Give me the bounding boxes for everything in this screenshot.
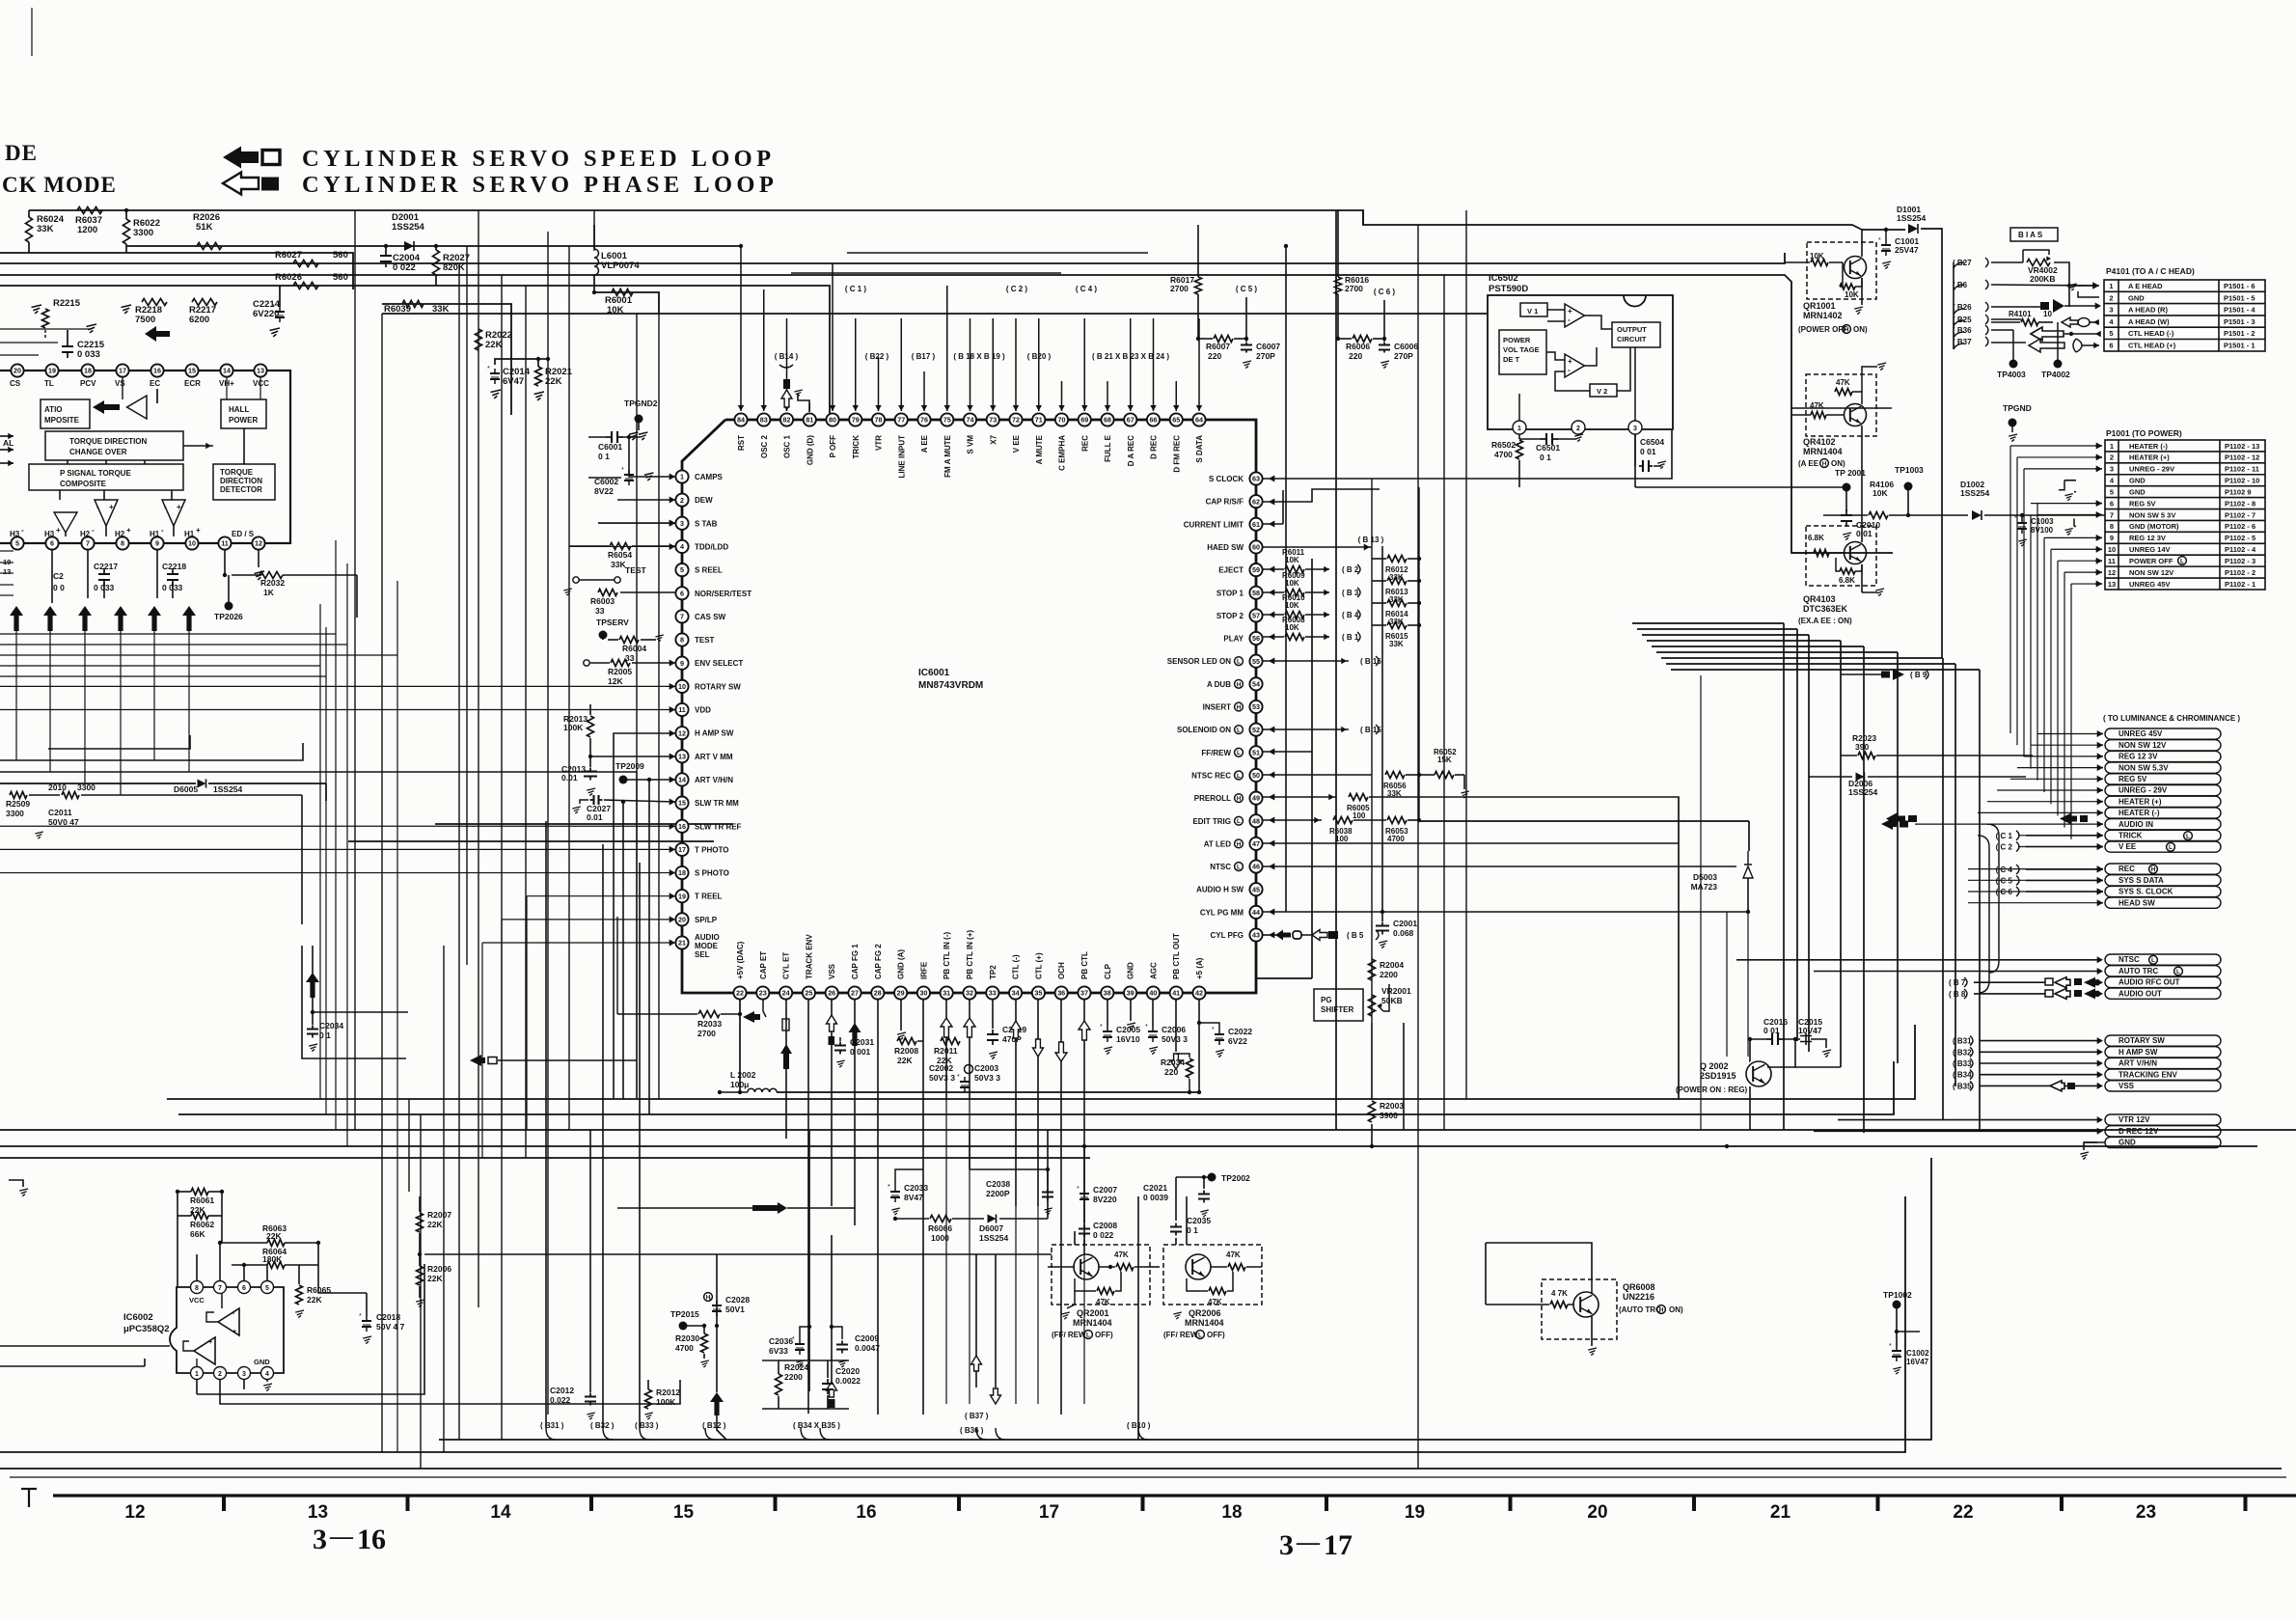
svg-text:AUTO TRC: AUTO TRC: [2118, 967, 2158, 975]
wire vertical 1422 right: [1371, 479, 1373, 1023]
wire IC6002 bottom bus: [197, 1264, 680, 1404]
svg-text:3: 3: [242, 1371, 246, 1378]
svg-text:77: 77: [897, 416, 905, 425]
IC pin 46 NTSC: [1210, 860, 1262, 872]
legend title CYLINDER SERVO SPEED LOOP: [302, 146, 776, 172]
wire pin37 drop: [1079, 1000, 1090, 1254]
resistor R6012: [1372, 556, 1421, 583]
resistor R6007: [1196, 336, 1248, 362]
svg-text:POWER: POWER: [1503, 336, 1531, 344]
wire left band vertical: [346, 563, 348, 1146]
wire under arrow: [49, 629, 51, 772]
pin labels H2- H2+: [80, 526, 131, 538]
capacitor C2002: [929, 1063, 970, 1092]
wire Q2002 base: [1725, 1144, 1729, 1148]
wire pin11 long run: [0, 706, 675, 713]
IC pin 3 S TAB: [675, 517, 717, 530]
svg-text:PB CTL IN (-): PB CTL IN (-): [943, 931, 951, 979]
svg-text:14: 14: [490, 1502, 511, 1523]
svg-text:1SS254: 1SS254: [392, 222, 425, 233]
wire P1001 row: [2010, 443, 2102, 450]
wire sys rows sweep: [0, 0, 1, 1]
svg-text:—: —: [1296, 1530, 1321, 1555]
wire pin49 PREROLL: [1263, 794, 1336, 801]
wire C6 drop: [1383, 300, 1385, 339]
connector C 2: [1996, 842, 2103, 852]
wire left stub: [0, 354, 39, 356]
wire pin50 NTSCREC: [1263, 772, 1372, 779]
svg-text:NON SW 5.3V: NON SW 5.3V: [2118, 763, 2169, 772]
svg-text:P1102 - 8: P1102 - 8: [2225, 499, 2255, 508]
svg-text:H1: H1: [184, 530, 195, 538]
capacitor C2214: [253, 286, 285, 337]
svg-text:C6007: C6007: [1256, 342, 1280, 351]
left IC pin 11: [218, 536, 231, 549]
wire P1001 row: [2058, 558, 2102, 564]
svg-text:5: 5: [2109, 329, 2113, 338]
svg-text:SYS S. CLOCK: SYS S. CLOCK: [2118, 888, 2173, 896]
svg-text:QR4102: QR4102: [1803, 437, 1836, 447]
svg-text:MA723: MA723: [1691, 882, 1718, 892]
svg-text:μPC358Q2: μPC358Q2: [123, 1324, 170, 1334]
svg-text:33K: 33K: [432, 304, 450, 315]
wire B6 row: [1991, 282, 2099, 289]
svg-text:180K: 180K: [262, 1254, 283, 1264]
svg-text:AUDIO RFC OUT: AUDIO RFC OUT: [2118, 978, 2180, 987]
wire top bus: [29, 210, 1862, 230]
svg-text:70: 70: [1058, 416, 1066, 425]
svg-text:220: 220: [1208, 351, 1221, 361]
op-amp U6502a: [1565, 304, 1584, 327]
svg-text:15: 15: [673, 1502, 695, 1523]
svg-text:P1102 - 1: P1102 - 1: [2225, 580, 2255, 589]
svg-text:2: 2: [2109, 293, 2113, 302]
svg-text:47K: 47K: [1226, 1250, 1241, 1259]
svg-text:R2006: R2006: [427, 1264, 451, 1274]
label 19 13: [3, 558, 11, 576]
wire pin42 drop: [1197, 1000, 1201, 1094]
op-amp U6002a: [206, 1294, 239, 1335]
wire pin27 drop: [849, 1000, 861, 1225]
connector (B16): [1360, 656, 1381, 666]
svg-text:83: 83: [760, 416, 768, 425]
resistor R2006: [416, 1252, 451, 1307]
svg-text:C2022: C2022: [1228, 1027, 1252, 1036]
connector B36: [1953, 325, 1988, 335]
svg-text:10: 10: [2043, 310, 2052, 318]
IC pin 44 CYL PG MM: [1200, 906, 1263, 919]
resistor R6053: [1353, 817, 1421, 844]
label (C1): [845, 285, 867, 293]
wire TP area to right: [356, 575, 358, 618]
svg-text:L: L: [1237, 864, 1241, 870]
wire pin44 CYLPGMM: [1263, 909, 1384, 916]
svg-text:0 1: 0 1: [319, 1030, 331, 1040]
svg-text:TORQUE DIRECTION: TORQUE DIRECTION: [69, 437, 148, 446]
svg-text:13: 13: [308, 1502, 328, 1523]
svg-text:POWER: POWER: [229, 416, 258, 425]
connector C 6: [1996, 887, 2103, 896]
ground under GND stadium: [2080, 1142, 2105, 1160]
svg-text:*: *: [888, 1184, 890, 1191]
wire into stadium: [2024, 753, 2103, 759]
wire pin drop ext: [969, 1100, 970, 1404]
resistor R6052: [1419, 748, 1469, 798]
wire vertical riser: [616, 917, 618, 1014]
svg-text:H2: H2: [115, 530, 125, 538]
svg-text:TP2: TP2: [989, 965, 998, 979]
svg-text:OSC 1: OSC 1: [783, 434, 792, 458]
resistor R6066: [893, 1216, 984, 1244]
svg-text:R2034: R2034: [1161, 1058, 1185, 1067]
svg-text:2200: 2200: [784, 1372, 803, 1382]
svg-text:35: 35: [1034, 989, 1042, 998]
wire pin23 hook: [763, 1000, 766, 1017]
svg-text:REC: REC: [1080, 435, 1089, 452]
svg-text:R6066: R6066: [928, 1223, 952, 1233]
svg-text:( C 5 ): ( C 5 ): [1236, 285, 1258, 293]
svg-text:( B 3: ( B 3: [1342, 589, 1359, 597]
svg-text:16V47: 16V47: [1906, 1358, 1929, 1366]
svg-text:D FM REC: D FM REC: [1172, 435, 1181, 473]
svg-text:H: H: [1237, 841, 1242, 848]
IC pin 79 TRICK: [849, 413, 861, 458]
wire pin1 left: [627, 435, 675, 481]
svg-text:7500: 7500: [135, 315, 155, 325]
svg-text:0 1: 0 1: [1540, 453, 1551, 462]
svg-text:17: 17: [119, 367, 126, 375]
test point TP4002: [2041, 322, 2070, 379]
IC pin 82 OSC 1: [780, 413, 793, 458]
vr VR2001: [1369, 984, 1411, 1016]
arrow CTL HEAD minus: [2031, 327, 2101, 341]
wire top pin riser: [990, 318, 996, 411]
svg-text:16V10: 16V10: [1116, 1034, 1140, 1044]
IC6002 pin 7: [214, 1281, 227, 1294]
svg-text:22K: 22K: [427, 1220, 443, 1229]
svg-text:0 022: 0 022: [393, 262, 416, 273]
IC pin 41 PB CTL OUT: [1170, 933, 1183, 1000]
page edge mark: [31, 8, 33, 56]
wire pin41 drop: [1171, 1000, 1182, 1069]
wire C2 sweep: [1978, 836, 1989, 993]
wire P1001 row: [2071, 581, 2102, 588]
svg-text:3: 3: [1633, 426, 1637, 432]
svg-text:( B25: ( B25: [1953, 316, 1972, 324]
svg-text:NON SW 12V: NON SW 12V: [2118, 741, 2167, 750]
connector ( B 2): [1342, 564, 1360, 574]
left IC pin 6: [45, 536, 58, 549]
wire vertical 1360b: [1256, 559, 1312, 978]
wire pin52 SOLENOID: [1263, 727, 1349, 733]
svg-text:REG 5V: REG 5V: [2118, 775, 2147, 783]
wire x646 vertical: [621, 800, 625, 1099]
wire pin20 drop: [501, 920, 503, 1146]
svg-text:VTR 12V: VTR 12V: [2118, 1115, 2150, 1124]
svg-text:PG: PG: [1321, 996, 1332, 1004]
svg-text:8V100: 8V100: [2031, 526, 2054, 535]
IC U6001 name: [918, 668, 983, 691]
svg-text:R2005: R2005: [608, 667, 632, 676]
svg-text:REG 12 3V: REG 12 3V: [2118, 753, 2158, 761]
svg-text:TL: TL: [44, 379, 54, 388]
svg-text:6V47: 6V47: [503, 376, 524, 387]
wire bottom bus B: [0, 1196, 1905, 1452]
resistor R2004: [1369, 959, 1405, 980]
svg-text:TDD/LDD: TDD/LDD: [695, 542, 728, 551]
label QR4102: [1803, 437, 1843, 456]
arrow A HEAD W: [2062, 317, 2099, 327]
wire post diode: [1921, 229, 1942, 658]
wire vertical riser: [354, 210, 356, 1130]
wire under arrow: [84, 629, 86, 783]
svg-text:NTSC: NTSC: [1210, 863, 1231, 871]
svg-text:76: 76: [920, 416, 928, 425]
svg-text:IRFE: IRFE: [919, 961, 928, 979]
transistor Q2002: [1676, 1039, 1771, 1094]
svg-text:UNREG 45V: UNREG 45V: [2118, 729, 2163, 738]
wire R2003 riser: [1372, 546, 1382, 1100]
svg-text:0.022: 0.022: [550, 1395, 571, 1405]
wire pin19 long run: [527, 893, 675, 899]
svg-text:16: 16: [678, 822, 686, 831]
IC pin 60 HAED SW: [1207, 540, 1262, 553]
capacitor C2013: [561, 764, 597, 796]
svg-text:CAS SW: CAS SW: [695, 613, 725, 621]
resistor R2008: [894, 1038, 918, 1066]
wire vertical riser: [458, 263, 460, 1440]
table P1001 header: [2106, 428, 2182, 438]
svg-text:( B37 ): ( B37 ): [965, 1412, 989, 1420]
wire into stadium: [1987, 798, 2103, 805]
svg-text:NTSC REC: NTSC REC: [1191, 771, 1231, 780]
legend phase-loop arrow: [223, 173, 279, 195]
svg-text:33K: 33K: [37, 224, 54, 234]
left IC pin 15 ECR: [184, 364, 201, 388]
svg-text:D REC: D REC: [1150, 435, 1159, 459]
wire left band vertical: [396, 581, 398, 1452]
svg-text:14: 14: [223, 367, 231, 375]
block HALL POWER: [221, 399, 266, 428]
IC pin 71 A MUTE: [1032, 413, 1045, 464]
svg-text:IC6002: IC6002: [123, 1312, 153, 1323]
svg-text:40: 40: [1149, 989, 1157, 998]
svg-text:1SS254: 1SS254: [213, 784, 243, 794]
wire left band vertical: [319, 604, 321, 1099]
inductor L6001: [592, 225, 641, 294]
wire vertical riser: [525, 286, 527, 1158]
signal box REG 5V: [2105, 774, 2221, 784]
svg-text:TP2026: TP2026: [214, 612, 243, 621]
wire QR6008 collector riser: [1486, 1243, 1592, 1279]
wire C2014 node: [535, 357, 550, 361]
svg-text:1SS254: 1SS254: [1960, 488, 1990, 498]
svg-text:CS: CS: [10, 379, 21, 388]
svg-text:VSS: VSS: [2118, 1082, 2135, 1090]
wire top pin riser: [1036, 318, 1042, 411]
svg-text:HAED SW: HAED SW: [1207, 543, 1244, 552]
IC pin 64 S DATA: [1192, 413, 1205, 462]
diode D2006: [1809, 773, 2026, 798]
svg-text:( B 1: ( B 1: [1342, 633, 1359, 642]
signal box AUDIO IN: [2105, 819, 2221, 830]
IC pin 76 A EE: [917, 413, 930, 453]
wire edge arrows: [0, 433, 14, 466]
svg-text:C2028: C2028: [725, 1295, 750, 1305]
svg-text:270P: 270P: [1256, 351, 1275, 361]
resistor R2024: [776, 1360, 809, 1409]
IC pin 45 AUDIO H SW: [1196, 883, 1262, 895]
svg-text:C2033: C2033: [904, 1183, 928, 1193]
resistor R4101: [1991, 310, 2053, 326]
svg-text:6: 6: [242, 1285, 246, 1292]
svg-text:D6007: D6007: [979, 1223, 1003, 1233]
svg-text:*: *: [1100, 1024, 1103, 1030]
svg-text:47K: 47K: [1810, 401, 1824, 410]
capacitor C1003: [2014, 513, 2054, 546]
pin labels H3- H3+: [10, 526, 61, 538]
svg-text:10K: 10K: [1872, 488, 1888, 498]
svg-text:R6054: R6054: [608, 550, 632, 560]
svg-text:3: 3: [2109, 306, 2113, 315]
svg-text:DE: DE: [5, 141, 38, 165]
label (B13): [1358, 536, 1384, 544]
wire pin43 CYLPFG: [1263, 932, 1277, 939]
svg-text:MN8743VRDM: MN8743VRDM: [918, 680, 983, 691]
svg-text:( B22 ): ( B22 ): [865, 352, 889, 361]
svg-text:100: 100: [1335, 835, 1349, 843]
wire P1001 row: [2064, 569, 2102, 576]
svg-text:P1102 - 7: P1102 - 7: [2225, 510, 2255, 519]
svg-text:3900: 3900: [1380, 1111, 1398, 1120]
svg-text:6V22: 6V22: [1228, 1036, 1247, 1046]
svg-text:220: 220: [1164, 1067, 1178, 1077]
test point TP2001: [1635, 468, 1866, 511]
svg-text:CURRENT LIMIT: CURRENT LIMIT: [1184, 520, 1244, 529]
resistor R2217: [189, 299, 217, 326]
svg-text:HEATER (-): HEATER (-): [2129, 442, 2168, 451]
svg-text:47K: 47K: [1836, 378, 1850, 387]
connector B9: [1841, 669, 1928, 680]
svg-text:28: 28: [874, 989, 882, 998]
resistor R6038: [1329, 817, 1353, 844]
svg-text:C2021: C2021: [1143, 1183, 1167, 1193]
resistor R2007: [417, 1196, 452, 1254]
svg-text:C2: C2: [53, 571, 64, 581]
svg-text:72: 72: [1012, 416, 1020, 425]
svg-text:79: 79: [852, 416, 860, 425]
label (B20): [1027, 352, 1052, 361]
resistor R6024: [26, 210, 65, 253]
svg-text:TPSERV: TPSERV: [596, 618, 629, 627]
wire corner 313: [302, 946, 406, 1058]
wire ladder riser: [1666, 664, 1955, 1086]
svg-text:-: -: [1568, 316, 1571, 324]
svg-text:CYL PFG: CYL PFG: [1210, 931, 1244, 940]
svg-text:65: 65: [1172, 416, 1180, 425]
IC pin 40 AGC: [1147, 962, 1160, 1000]
wire into stadium2: [1968, 877, 2103, 884]
label QR6008: [1623, 1282, 1655, 1302]
svg-text:A HEAD (R): A HEAD (R): [2128, 306, 2168, 315]
wire top pin riser: [853, 318, 859, 411]
svg-text:OFF): OFF): [1095, 1331, 1113, 1339]
signal box NTSC: [2105, 954, 2221, 965]
svg-text:TP2009: TP2009: [615, 761, 644, 771]
test point TP2009: [615, 761, 675, 1114]
capacitor C2028: [709, 1295, 750, 1316]
capacitor C2004: [380, 244, 421, 273]
bold arrow into RATIO block: [93, 400, 120, 414]
resistor R6016: [1335, 210, 1370, 339]
svg-text:( C 2 ): ( C 2 ): [1006, 285, 1028, 293]
signal box HEATER (-): [2105, 808, 2221, 818]
wire corner to bus: [820, 1428, 830, 1440]
svg-text:51K: 51K: [196, 222, 213, 233]
wire IC6002 left inputs: [0, 1346, 170, 1366]
svg-text:6.8K: 6.8K: [1808, 534, 1824, 542]
svg-text:8: 8: [195, 1285, 199, 1292]
connector B35: [1953, 1081, 2103, 1090]
svg-text:42: 42: [1195, 989, 1203, 998]
switch TEST: [573, 565, 647, 583]
svg-text:26: 26: [828, 989, 835, 998]
svg-text:C2035: C2035: [1187, 1216, 1211, 1225]
svg-text:QR1001: QR1001: [1803, 301, 1836, 311]
IC pin 11 VDD: [675, 703, 711, 716]
svg-text:2: 2: [218, 1371, 222, 1378]
svg-text:( B 2: ( B 2: [1342, 565, 1359, 574]
capacitor C2009: [832, 1327, 880, 1367]
label (C4): [1076, 285, 1098, 293]
block PG SHIFTER: [1314, 989, 1363, 1021]
wire vert 1497: [1443, 275, 1445, 1130]
wire pin16 long run: [0, 823, 675, 830]
svg-text:R6004: R6004: [622, 644, 646, 653]
wire pin4 long run: [569, 543, 675, 550]
wire Q2002 collector: [1767, 1039, 1841, 1067]
left IC pin 9: [150, 536, 163, 549]
wire P1001 row: [2031, 500, 2102, 507]
transistor QR4102: [1791, 363, 1886, 453]
svg-text:67: 67: [1127, 416, 1134, 425]
resistor R6061: [176, 1189, 224, 1216]
IC pin 22 +5V (DAC): [733, 941, 746, 999]
svg-text:41: 41: [1172, 989, 1180, 998]
svg-text:32: 32: [966, 989, 973, 998]
svg-text:0 033: 0 033: [77, 349, 100, 360]
svg-text:22K: 22K: [307, 1295, 322, 1305]
svg-text:11: 11: [2108, 557, 2116, 565]
svg-text:UNREG 45V: UNREG 45V: [2129, 580, 2171, 589]
arrow right mid: [617, 1202, 855, 1214]
svg-text:TRICK: TRICK: [852, 435, 861, 459]
wire vertical riser: [466, 246, 468, 965]
svg-text:C2007: C2007: [1093, 1185, 1117, 1195]
capacitor C2011: [48, 808, 79, 827]
left IC body: [0, 371, 290, 543]
wire P1001 feeder vertical: [2057, 561, 2059, 815]
wire pin35 drop: [1033, 1000, 1044, 1206]
svg-text:3: 3: [1279, 1529, 1294, 1561]
svg-text:AUDIO: AUDIO: [695, 933, 720, 942]
block OUTPUT CIRCUIT: [1612, 322, 1660, 347]
wire into stadium: [2017, 764, 2103, 771]
wire H-col 1: [87, 597, 89, 599]
test point TP1002: [1883, 1290, 1912, 1346]
test point TP2026: [214, 575, 243, 621]
svg-text:C2001: C2001: [1393, 919, 1417, 928]
